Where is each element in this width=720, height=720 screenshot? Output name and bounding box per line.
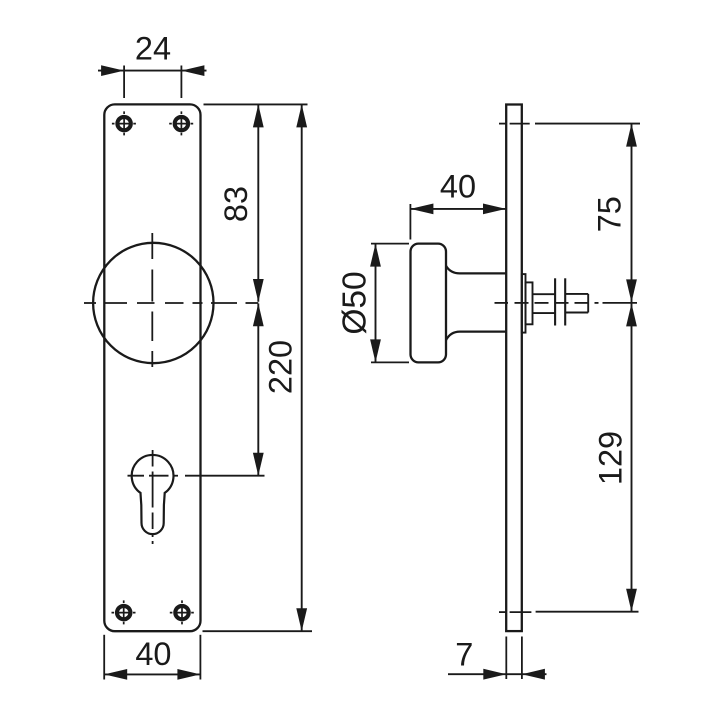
svg-text:40: 40 (135, 636, 171, 672)
bottom extension line (plate bottom) (203, 630, 313, 632)
keyhole euro profile (132, 455, 174, 534)
dim 75 arrows (626, 124, 637, 303)
knob circle front view (93, 243, 213, 363)
keyhole extension line (185, 475, 265, 477)
dim knob-to-keyhole line (257, 304, 259, 476)
side view top screw center tick (499, 123, 530, 125)
svg-text:40: 40 (440, 168, 476, 204)
side view bottom screw center tick (499, 611, 531, 613)
washer line 2 (564, 278, 566, 325)
dim 7 extension lines (506, 637, 522, 680)
dim 7 arrows (483, 669, 545, 680)
spindle shaft (533, 294, 556, 313)
top extension line (plate top) (204, 103, 308, 105)
dim D50 line (375, 244, 377, 363)
keyhole vertical center line (152, 450, 154, 544)
dim 129 arrows (626, 303, 637, 611)
dim 40 line (side) (410, 208, 506, 210)
dim 83 arrows (253, 104, 264, 302)
screw hole bottom-right (170, 600, 194, 624)
dim D50 extension lines (371, 244, 409, 363)
svg-text:129: 129 (593, 431, 629, 485)
dim 7 line (448, 673, 547, 675)
screw hole top-right (169, 111, 193, 135)
dim 40 extension lines (front) (104, 635, 200, 680)
spindle flange 1 (522, 274, 526, 333)
svg-text:24: 24 (135, 30, 171, 66)
dim 75 line (631, 124, 633, 303)
knob horizontal center line (84, 302, 258, 304)
keyhole horizontal center line (128, 475, 179, 477)
dim 129 bottom extension line (536, 611, 639, 613)
dim knob-to-keyhole arrows (253, 303, 264, 475)
spindle flange 2 (526, 282, 533, 324)
svg-text:83: 83 (218, 186, 254, 222)
svg-text:7: 7 (455, 636, 473, 672)
knob vertical center line (151, 233, 153, 367)
side view center line (495, 302, 638, 304)
dim 24 arrows (101, 65, 204, 76)
dim 40 arrows (front) (104, 669, 200, 680)
side view plate (506, 105, 522, 632)
screw hole bottom-left (112, 600, 136, 624)
dim D50 arrows (370, 244, 381, 363)
dim 220 line (301, 104, 303, 631)
dim 129 line (631, 303, 633, 611)
dim 24 extension lines (124, 66, 181, 99)
svg-text:220: 220 (263, 340, 299, 394)
dim 220 arrows (296, 104, 307, 631)
dim 40 arrows (side) (410, 204, 506, 215)
dim 83 line (257, 104, 259, 301)
dim 40 line (front) (104, 673, 200, 675)
screw hole top-left (112, 111, 136, 135)
knob neck bottom edge (446, 332, 506, 341)
nut (565, 294, 588, 313)
knob head side view (411, 244, 447, 363)
dim 24 line (98, 70, 207, 72)
svg-text:75: 75 (591, 196, 627, 232)
washer line 1 (554, 278, 556, 325)
backplate front view outline (104, 104, 200, 631)
dim 75 extension line (535, 123, 640, 125)
dim 40 extension line (side) (409, 204, 411, 240)
knob neck top edge (446, 266, 506, 274)
svg-text:Ø50: Ø50 (337, 271, 374, 334)
